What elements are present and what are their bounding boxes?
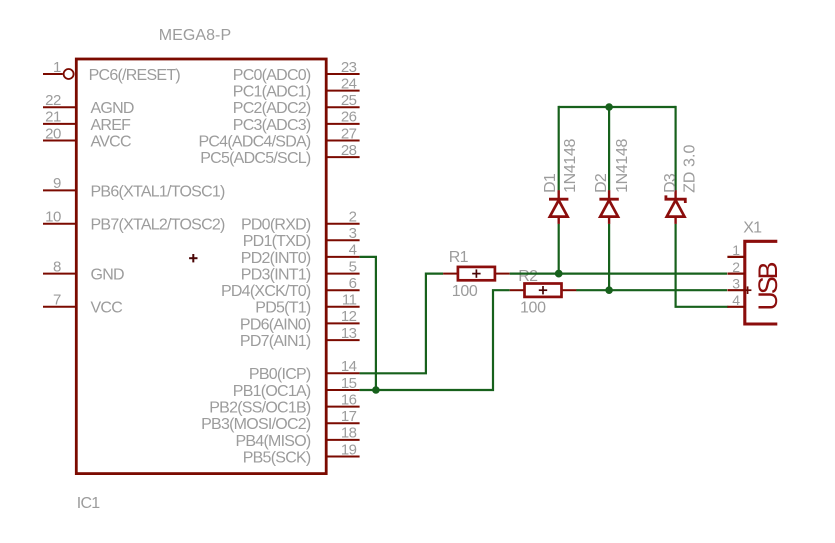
wire D3 cathode drop — [674, 106, 676, 190]
diode D3 ZD 3.0 zener — [666, 190, 685, 224]
svg-text:11: 11 — [342, 292, 357, 309]
connector X1 USB text (rotated) — [753, 262, 783, 310]
svg-text:7: 7 — [53, 292, 61, 309]
label D1 value 1N4148 (rotated) — [562, 139, 579, 193]
pin 3 of X1 USB — [727, 276, 744, 292]
pin 23 PC0(ADC0) (right) — [233, 59, 360, 84]
pin 6 PD4(XCK/T0) (right) — [221, 275, 360, 300]
pin 24 PC1(ADC1) (right) — [233, 75, 360, 100]
label D3 value ZD 3.0 (rotated) — [681, 145, 698, 193]
label D1 name (rotated) — [542, 173, 559, 193]
svg-text:4: 4 — [349, 242, 357, 259]
pin 1 PC6(/RESET) (left) — [43, 59, 180, 84]
svg-text:PB6(XTAL1/TOSC1): PB6(XTAL1/TOSC1) — [91, 183, 226, 200]
pin 16 PB2(SS/OC1B) (right) — [209, 391, 359, 416]
svg-text:PC2(ADC2): PC2(ADC2) — [233, 100, 311, 117]
svg-text:16: 16 — [341, 391, 357, 408]
pin 4 PD2(INT0) (right) — [241, 242, 360, 267]
svg-text:4: 4 — [732, 292, 740, 308]
wire D2 cathode drop — [608, 107, 610, 190]
wire top rail joining D1 D2 D3 cathodes — [559, 106, 676, 108]
pin 7 VCC (left) — [43, 292, 122, 317]
pin 8 GND (left) — [43, 258, 124, 283]
pin 2 of X1 USB — [727, 259, 744, 275]
svg-text:R2: R2 — [518, 268, 538, 285]
pin 13 PD7(AIN1) (right) — [240, 325, 360, 350]
wire D2 anode to D- line — [608, 224, 610, 291]
svg-text:GND: GND — [91, 267, 125, 284]
pin 21 AREF (left) — [43, 109, 131, 134]
pin 27 PC4(ADC4/SDA) (right) — [198, 125, 359, 150]
junction D1 on D+ line — [555, 270, 563, 278]
svg-text:1N4148: 1N4148 — [562, 139, 579, 193]
pin 22 AGND (left) — [43, 92, 134, 117]
svg-text:15: 15 — [341, 375, 357, 392]
svg-text:MEGA8-P: MEGA8-P — [159, 27, 231, 44]
svg-text:PB1(OC1A): PB1(OC1A) — [233, 383, 311, 400]
svg-text:PD7(AIN1): PD7(AIN1) — [240, 333, 311, 350]
svg-text:PD6(AIN0): PD6(AIN0) — [240, 316, 311, 333]
wire D1 anode to D+ line — [558, 224, 560, 274]
pin 10 PB7(XTAL2/TOSC2) (left) — [43, 209, 225, 234]
junction D2 on D- line — [605, 286, 613, 294]
svg-text:26: 26 — [341, 109, 357, 126]
svg-text:24: 24 — [341, 75, 357, 92]
svg-text:18: 18 — [341, 425, 357, 442]
label R2 name — [518, 268, 538, 285]
pin 20 AVCC (left) — [43, 125, 131, 150]
junction PD2 wire onto PB1 wire — [372, 386, 380, 394]
svg-text:12: 12 — [341, 308, 357, 325]
pin 25 PC2(ADC2) (right) — [233, 92, 360, 117]
svg-text:PD1(TXD): PD1(TXD) — [243, 233, 311, 250]
svg-text:1N4148: 1N4148 — [614, 139, 631, 193]
svg-text:X1: X1 — [743, 220, 762, 237]
svg-text:PC3(ADC3): PC3(ADC3) — [233, 117, 311, 134]
origin cross of X1 — [744, 286, 752, 294]
resistor R1 100 — [443, 267, 510, 280]
pin 18 PB4(MISO) (right) — [235, 425, 359, 450]
svg-text:2: 2 — [349, 209, 357, 226]
pin 28 PC5(ADC5/SCL) (right) — [200, 142, 359, 167]
svg-text:PC5(ADC5/SCL): PC5(ADC5/SCL) — [200, 150, 311, 167]
connector X1 USB body — [745, 241, 778, 324]
pin 19 PB5(SCK) (right) — [243, 441, 360, 466]
svg-text:PD0(RXD): PD0(RXD) — [241, 217, 311, 234]
pin 5 PD3(INT1) (right) — [241, 258, 360, 283]
pin 3 PD1(TXD) (right) — [243, 225, 360, 250]
pin 4 of X1 USB — [727, 292, 744, 308]
pin 1 of X1 USB — [727, 242, 744, 258]
svg-text:28: 28 — [341, 142, 357, 159]
svg-text:100: 100 — [520, 300, 546, 317]
svg-text:21: 21 — [45, 109, 61, 126]
svg-text:PC1(ADC1): PC1(ADC1) — [233, 84, 311, 101]
svg-text:10: 10 — [45, 209, 61, 226]
svg-text:PB3(MOSI/OC2): PB3(MOSI/OC2) — [201, 416, 311, 433]
svg-text:3: 3 — [349, 225, 357, 242]
svg-text:D2: D2 — [593, 173, 610, 193]
label R1 name — [449, 249, 469, 266]
svg-text:D1: D1 — [542, 173, 559, 193]
svg-text:1: 1 — [53, 59, 61, 76]
pin 9 PB6(XTAL1/TOSC1) (left) — [43, 175, 225, 200]
label R2 value 100 — [520, 300, 546, 317]
svg-text:PB5(SCK): PB5(SCK) — [243, 449, 311, 466]
wire PB1 pin15 through junction to R2 left — [360, 290, 510, 390]
svg-text:PD5(T1): PD5(T1) — [255, 300, 311, 317]
pin 11 PD5(T1) (right) — [255, 292, 359, 317]
svg-text:27: 27 — [341, 125, 357, 142]
wire R1 right to USB pin 2 (D+ line) — [510, 273, 727, 275]
pin 2 PD0(RXD) (right) — [241, 209, 360, 234]
wire D3 anode down and right to USB pin 4 — [676, 224, 729, 307]
wire PB0 pin14 to R1 left — [360, 274, 444, 374]
svg-text:19: 19 — [341, 441, 357, 458]
svg-text:R1: R1 — [449, 249, 469, 266]
svg-text:5: 5 — [349, 258, 357, 275]
svg-text:PB4(MISO): PB4(MISO) — [235, 433, 310, 450]
diode D1 1N4148 — [549, 190, 568, 224]
svg-text:8: 8 — [53, 258, 61, 275]
svg-text:D3: D3 — [662, 173, 679, 193]
svg-text:13: 13 — [341, 325, 357, 342]
svg-text:ZD 3.0: ZD 3.0 — [681, 145, 698, 193]
svg-text:PD2(INT0): PD2(INT0) — [241, 250, 311, 267]
svg-text:PC6(/RESET): PC6(/RESET) — [89, 67, 181, 84]
label R1 value 100 — [452, 283, 478, 300]
svg-text:2: 2 — [732, 259, 740, 275]
IC name label MEGA8-P — [159, 27, 231, 44]
svg-text:PC0(ADC0): PC0(ADC0) — [233, 67, 311, 84]
junction D2 top rail — [605, 103, 613, 111]
junction D1 on D+ line (redraw atop wire) — [555, 270, 563, 278]
svg-text:IC1: IC1 — [77, 495, 101, 512]
wire D1 cathode drop — [558, 106, 560, 190]
svg-text:25: 25 — [341, 92, 357, 109]
label D3 name (rotated) — [662, 173, 679, 193]
label X1 designator — [743, 220, 762, 237]
svg-text:9: 9 — [53, 175, 61, 192]
wire PD2 pin4 right-then-down to PB1 junction — [360, 257, 376, 390]
svg-text:1: 1 — [732, 242, 740, 258]
label D2 name (rotated) — [593, 173, 610, 193]
svg-text:PC4(ADC4/SDA): PC4(ADC4/SDA) — [198, 133, 310, 150]
svg-text:AREF: AREF — [91, 117, 132, 134]
svg-text:VCC: VCC — [91, 300, 123, 317]
IC designator IC1 — [77, 495, 101, 512]
svg-text:AVCC: AVCC — [91, 133, 131, 150]
wire R2 right to USB pin 3 (D- line) — [576, 289, 727, 291]
svg-text:PB0(ICP): PB0(ICP) — [249, 366, 311, 383]
svg-text:3: 3 — [732, 276, 740, 292]
svg-text:AGND: AGND — [91, 100, 134, 117]
svg-text:23: 23 — [341, 59, 357, 76]
origin cross of IC — [189, 254, 197, 262]
svg-text:PD4(XCK/T0): PD4(XCK/T0) — [221, 283, 311, 300]
svg-text:22: 22 — [45, 92, 61, 109]
label D2 value 1N4148 (rotated) — [614, 139, 631, 193]
pin 17 PB3(MOSI/OC2) (right) — [201, 408, 359, 433]
IC IC1 MEGA8-P box — [76, 59, 326, 474]
svg-text:PD3(INT1): PD3(INT1) — [241, 267, 311, 284]
svg-text:6: 6 — [349, 275, 357, 292]
svg-text:20: 20 — [45, 125, 61, 142]
svg-text:PB2(SS/OC1B): PB2(SS/OC1B) — [209, 400, 311, 417]
svg-text:100: 100 — [452, 283, 478, 300]
pin 14 PB0(ICP) (right) — [249, 358, 360, 383]
svg-text:USB: USB — [753, 262, 783, 310]
svg-text:14: 14 — [341, 358, 357, 375]
svg-text:17: 17 — [341, 408, 357, 425]
resistor R2 100 — [510, 284, 577, 297]
pin 12 PD6(AIN0) (right) — [240, 308, 360, 333]
diode D2 1N4148 — [599, 190, 618, 224]
pin 15 PB1(OC1A) (right) — [233, 375, 360, 400]
svg-text:PB7(XTAL2/TOSC2): PB7(XTAL2/TOSC2) — [91, 217, 226, 234]
pin 26 PC3(ADC3) (right) — [233, 109, 360, 134]
